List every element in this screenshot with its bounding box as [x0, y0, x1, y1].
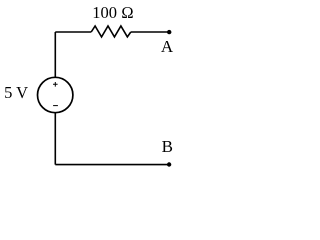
svg-text:100 Ω: 100 Ω [92, 3, 134, 22]
svg-text:B: B [162, 137, 173, 156]
svg-text:5 V: 5 V [4, 83, 28, 102]
svg-text:A: A [161, 37, 174, 56]
